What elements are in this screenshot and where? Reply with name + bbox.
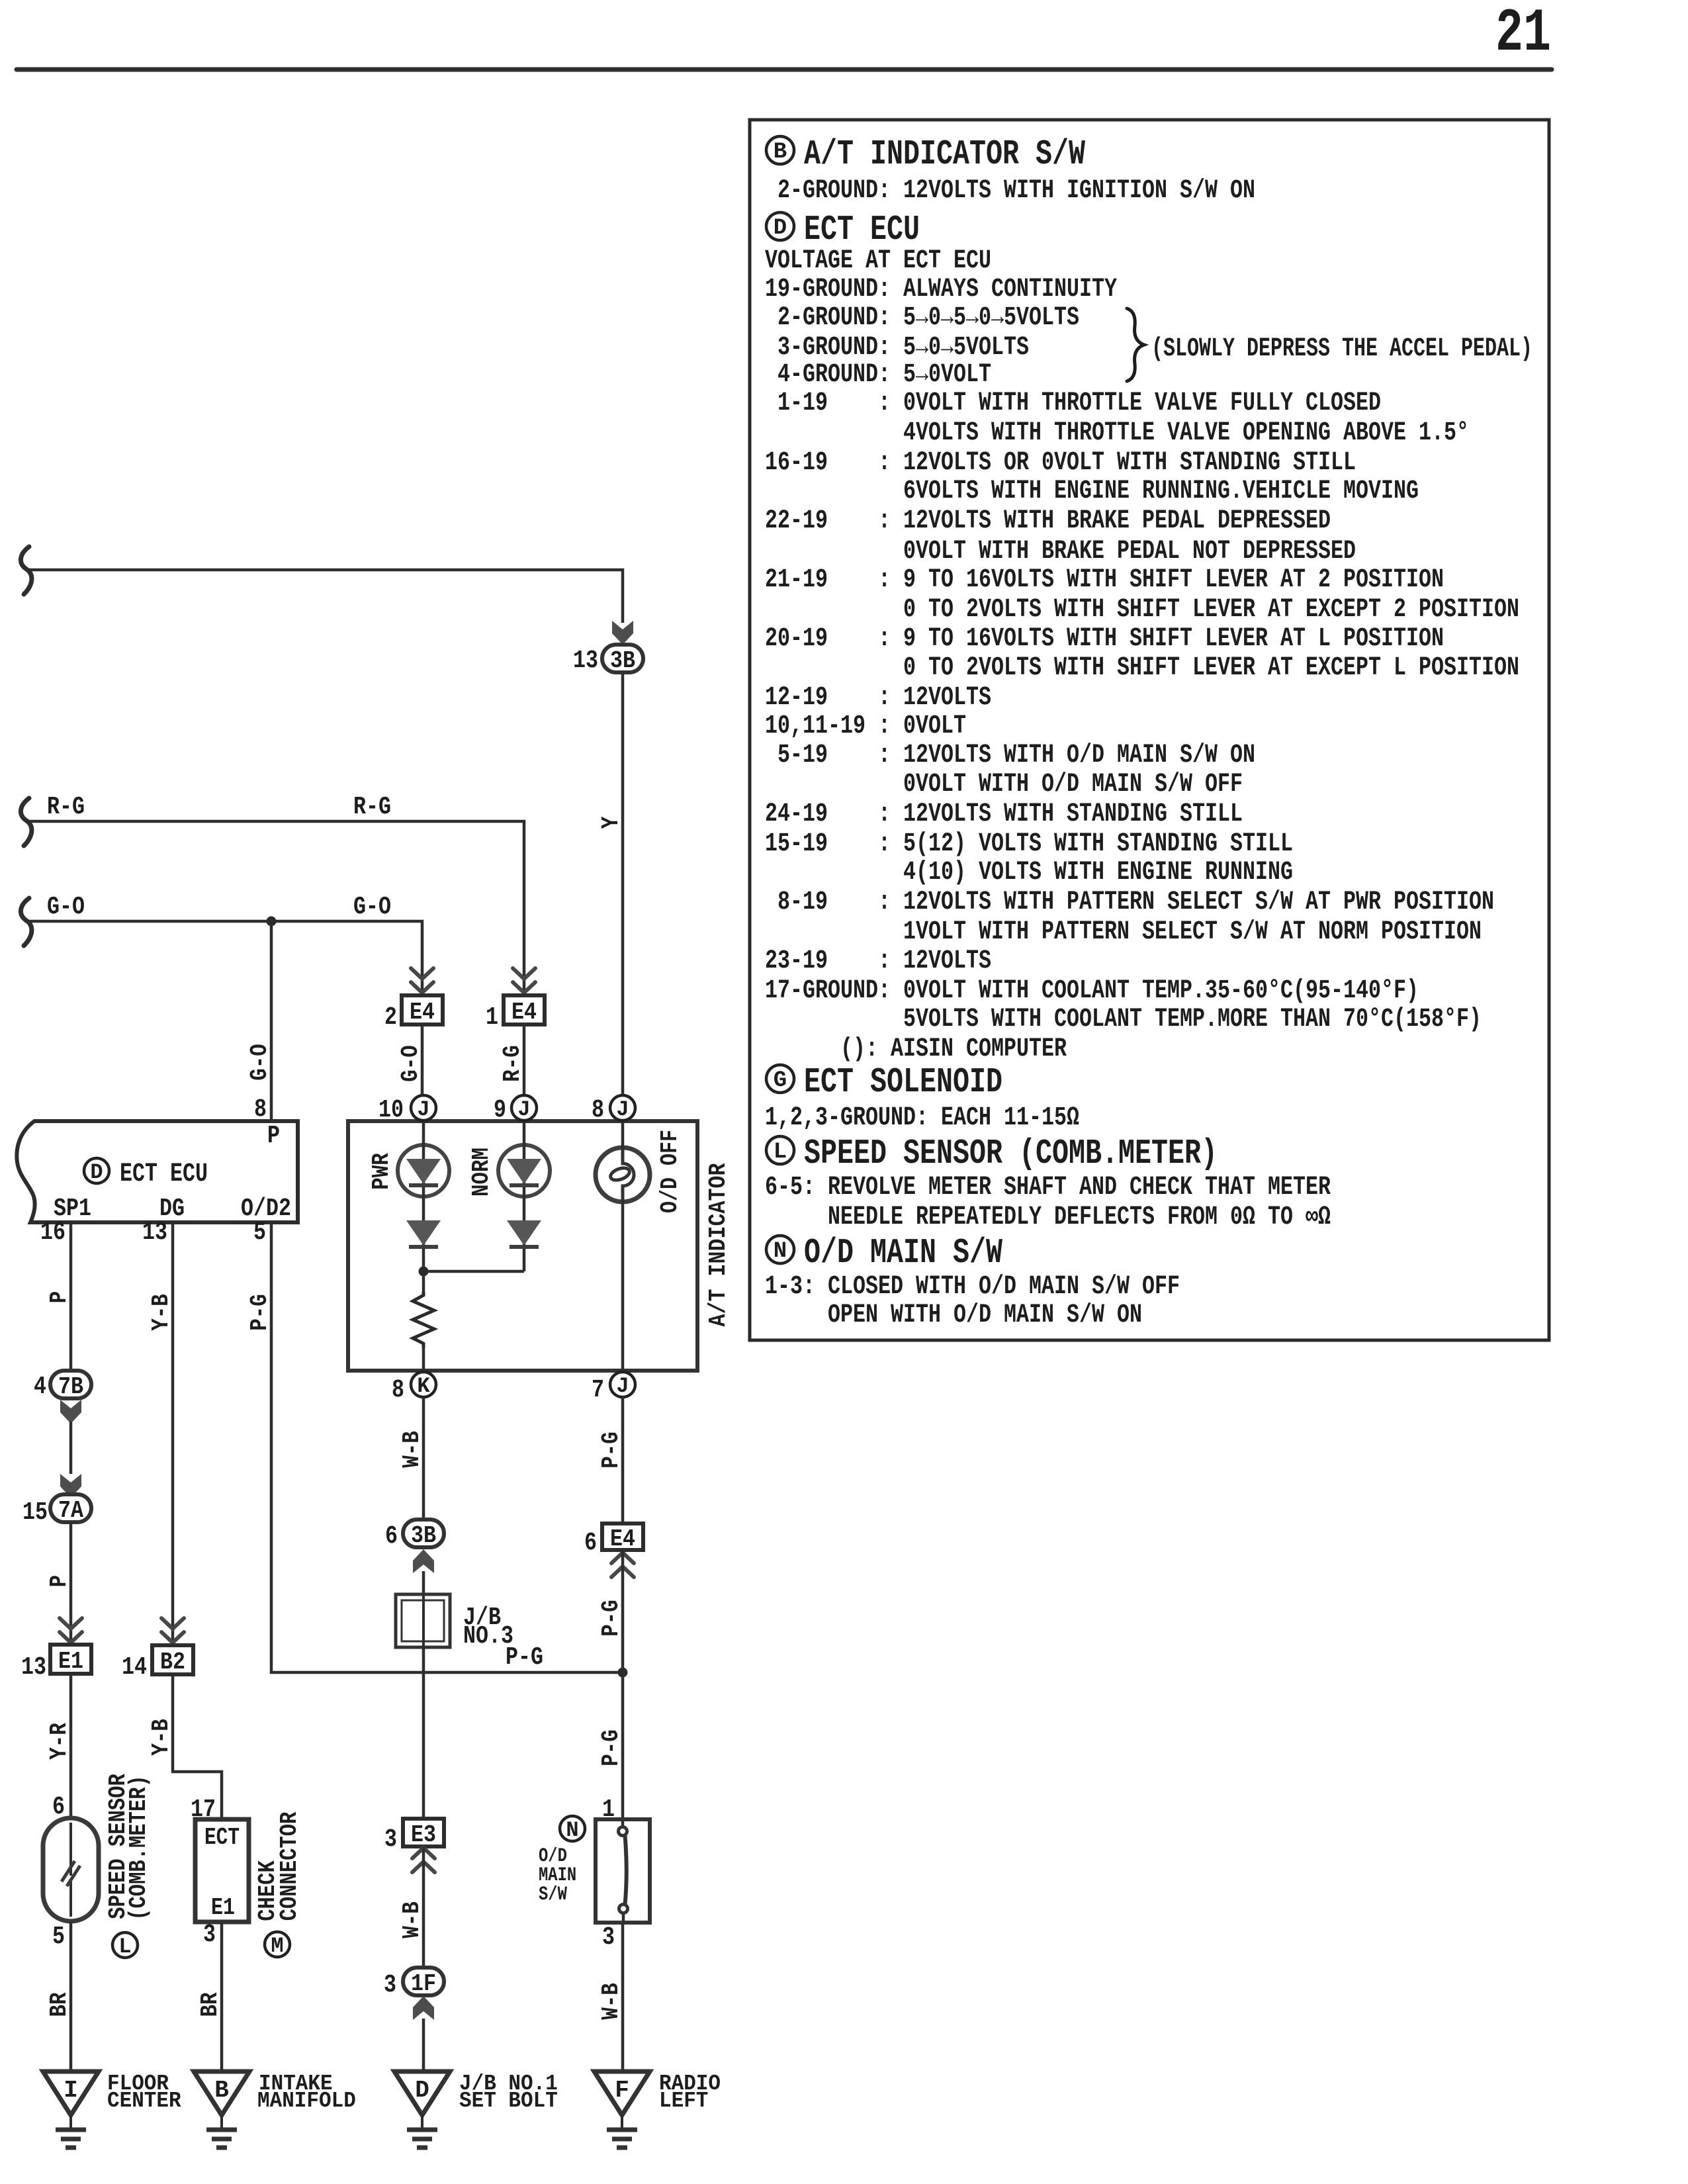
svg-text:D: D (774, 216, 787, 241)
circled letter D (ECT ECU) (84, 1158, 109, 1185)
svg-text:1-3: CLOSED WITH O/D MAIN S/W: 1-3: CLOSED WITH O/D MAIN S/W OFF (765, 1272, 1180, 1302)
svg-text:3: 3 (384, 1971, 396, 1999)
svg-text:G-O: G-O (246, 1044, 273, 1081)
wire W-B from 8(K) (422, 1397, 425, 1520)
svg-text:8-19 : 12VOLTS WITH PATTERN: 8-19 : 12VOLTS WITH PATTERN SELECT S/W A… (765, 887, 1494, 917)
wire to ground D (422, 2019, 425, 2071)
connector arrow into 2(E4) (411, 968, 433, 993)
wire lamp branch upper (621, 1121, 625, 1149)
wire P-G from ECT ECU O/D2 pin 5 (271, 1222, 623, 1672)
wire P from 7A to 13(E1) (69, 1522, 73, 1645)
svg-text:Y: Y (598, 816, 625, 829)
connector 13(3B) (602, 645, 643, 674)
wire BR to ground B (220, 1922, 224, 2071)
svg-text:OPEN WITH O/D MAIN S/W ON: OPEN WITH O/D MAIN S/W ON (765, 1300, 1142, 1330)
connector circle 10(J) (411, 1095, 436, 1122)
wire squiggle (continuation mark) G-O (21, 898, 31, 946)
svg-text:W-B: W-B (398, 1901, 425, 1938)
connector 2(E4) (402, 995, 443, 1026)
svg-text:19-GROUND: ALWAYS CONTINUITY: 19-GROUND: ALWAYS CONTINUITY (765, 275, 1117, 304)
solid arrow out of 3(1F) (413, 1996, 434, 2020)
connector arrow out of 3(E3) (412, 1848, 435, 1872)
wire junction to NORM branch (423, 1270, 524, 1273)
wire G-O (28, 921, 422, 995)
top rule (17, 68, 1552, 72)
wire G-O to 10(J) (421, 1024, 424, 1096)
svg-text:G-O: G-O (47, 893, 85, 921)
svg-text:Y-B: Y-B (148, 1294, 175, 1331)
svg-text:0 TO 2VOLTS WITH SHIFT LEVER A: 0 TO 2VOLTS WITH SHIFT LEVER AT EXCEPT L… (765, 653, 1519, 683)
connector circle 7(J) (610, 1372, 635, 1398)
svg-text:J: J (417, 1097, 429, 1122)
svg-text:LEFT: LEFT (659, 2089, 708, 2113)
svg-text:(): AISIN COMPUTER: (): AISIN COMPUTER (765, 1034, 1067, 1064)
svg-text:B: B (774, 140, 787, 165)
svg-text:5VOLTS WITH COOLANT TEMP.MORE: 5VOLTS WITH COOLANT TEMP.MORE THAN 70°C(… (765, 1005, 1482, 1034)
svg-text:5: 5 (52, 1923, 65, 1951)
circled letter N (O/D main S/W) (560, 1816, 585, 1843)
svg-text:BR: BR (197, 1992, 224, 2017)
A/T indicator box (348, 1121, 697, 1371)
solid arrow into connector 3B (612, 621, 633, 645)
svg-text:4-GROUND: 5→0VOLT: 4-GROUND: 5→0VOLT (765, 360, 991, 390)
svg-text:J: J (616, 1374, 629, 1398)
LED PWR diode (406, 1159, 441, 1185)
svg-text:13: 13 (21, 1653, 46, 1682)
connector 3(1F) (403, 1968, 444, 1997)
solid arrow into 7A (60, 1474, 81, 1498)
svg-text:7B: 7B (58, 1373, 83, 1400)
svg-text:0VOLT WITH O/D MAIN S/W OFF: 0VOLT WITH O/D MAIN S/W OFF (765, 770, 1243, 799)
connector 6(3B) (403, 1520, 444, 1549)
svg-text:G: G (774, 1068, 787, 1093)
wire to J/B No.3 (422, 1571, 425, 1594)
svg-text:6: 6 (385, 1522, 398, 1551)
svg-text:5-19 : 12VOLTS WITH O/D MAI: 5-19 : 12VOLTS WITH O/D MAIN S/W ON (765, 741, 1255, 770)
info box border (750, 120, 1549, 1340)
svg-text:15: 15 (22, 1498, 48, 1527)
svg-text:5: 5 (253, 1218, 266, 1247)
svg-text:A/T INDICATOR: A/T INDICATOR (705, 1163, 732, 1326)
svg-text:3-GROUND: 5→0→5VOLTS: 3-GROUND: 5→0→5VOLTS (765, 333, 1029, 363)
circled letter M (check connector) (265, 1932, 290, 1958)
svg-text:PWR: PWR (368, 1153, 395, 1190)
svg-text:6: 6 (584, 1529, 597, 1557)
svg-text:R-G: R-G (47, 793, 85, 821)
wire NORM branch (523, 1121, 526, 1271)
wire P-G to O/D main switch (621, 1550, 625, 1819)
connector 14(B2) (152, 1645, 193, 1676)
svg-text:(COMB.METER): (COMB.METER) (125, 1775, 152, 1921)
svg-text:6VOLTS WITH ENGINE RUNNING.VEH: 6VOLTS WITH ENGINE RUNNING.VEHICLE MOVIN… (765, 477, 1419, 506)
wire W-B to ground F (621, 1923, 625, 2071)
svg-text:SPEED SENSOR (COMB.METER): SPEED SENSOR (COMB.METER) (804, 1134, 1218, 1173)
svg-text:R-G: R-G (353, 793, 391, 821)
connector 3(E3) (403, 1819, 444, 1848)
wire G-O branch to ECT ECU pin 8 (270, 921, 273, 1121)
svg-text:6-5: REVOLVE METER SHAFT AND C: 6-5: REVOLVE METER SHAFT AND CHECK THAT … (765, 1173, 1331, 1203)
lamp filament O/D OFF (609, 1149, 634, 1201)
wire Y-B jog to check connector (173, 1674, 222, 1819)
svg-text:L: L (774, 1140, 787, 1165)
connector 15(7A) (50, 1494, 91, 1524)
svg-text:23-19 : 12VOLTS: 23-19 : 12VOLTS (765, 946, 991, 976)
connector 6(E4) (602, 1524, 643, 1553)
svg-text:15-19 : 5(12) VOLTS WITH ST: 15-19 : 5(12) VOLTS WITH STANDING STILL (765, 829, 1293, 859)
svg-text:P-G: P-G (506, 1643, 543, 1672)
svg-text:21: 21 (1495, 0, 1551, 68)
ground symbol I floor center (43, 2071, 99, 2148)
svg-text:CONNECTOR: CONNECTOR (276, 1811, 303, 1921)
svg-text:L: L (118, 1934, 131, 1959)
svg-text:W-B: W-B (598, 1983, 625, 2020)
svg-text:E1: E1 (58, 1648, 83, 1675)
circled letter L (766, 1136, 794, 1165)
lamp circle O/D OFF (596, 1148, 650, 1202)
svg-text:D: D (90, 1160, 103, 1185)
svg-text:E4: E4 (511, 999, 537, 1026)
circled letter G (766, 1065, 794, 1093)
svg-text:4(10) VOLTS WITH ENGINE RUNNIN: 4(10) VOLTS WITH ENGINE RUNNING (765, 858, 1293, 887)
svg-text:K: K (417, 1374, 430, 1398)
svg-text:8: 8 (392, 1376, 404, 1404)
svg-text:22-19 : 12VOLTS WITH BRAKE: 22-19 : 12VOLTS WITH BRAKE PEDAL DEPRESS… (765, 506, 1331, 536)
svg-text:P-G: P-G (598, 1729, 625, 1766)
svg-text:8: 8 (592, 1096, 604, 1124)
svg-text:O/D OFF: O/D OFF (656, 1130, 684, 1213)
svg-text:2-GROUND: 5→0→5→0→5VOLTS: 2-GROUND: 5→0→5→0→5VOLTS (765, 303, 1079, 333)
svg-text:O/D MAIN S/W: O/D MAIN S/W (804, 1233, 1002, 1273)
svg-text:Y-B: Y-B (148, 1719, 175, 1756)
diode below NORM LED (507, 1220, 541, 1247)
svg-text:P-G: P-G (598, 1600, 625, 1637)
svg-text:14: 14 (122, 1653, 147, 1682)
svg-text:ECT SOLENOID: ECT SOLENOID (804, 1062, 1002, 1102)
wire lamp branch lower (621, 1201, 625, 1373)
svg-text:N: N (566, 1818, 578, 1843)
speed sensor symbol (capsule) (43, 1818, 99, 1921)
svg-text:SET BOLT: SET BOLT (459, 2089, 558, 2113)
wire W-B to 3(1F) (422, 1846, 425, 1967)
connector arrow into 1(E4) (513, 968, 535, 993)
wire BR to ground I (69, 1921, 73, 2071)
svg-text:I: I (64, 2077, 78, 2104)
wire P from ECT ECU pin 16 (69, 1222, 73, 1371)
ground symbol D J/B No.1 set bolt (394, 2071, 450, 2148)
LED circle PWR (398, 1145, 449, 1197)
svg-text:0VOLT WITH BRAKE PEDAL NOT DEP: 0VOLT WITH BRAKE PEDAL NOT DEPRESSED (765, 537, 1356, 567)
diode below PWR LED (406, 1220, 441, 1247)
junction dot below PWR diode (419, 1267, 429, 1277)
svg-text:Y-R: Y-R (46, 1723, 73, 1760)
svg-text:24-19 : 12VOLTS WITH STANDI: 24-19 : 12VOLTS WITH STANDING STILL (765, 799, 1243, 829)
svg-text:20-19 : 9 TO 16VOLTS WITH S: 20-19 : 9 TO 16VOLTS WITH SHIFT LEVER AT… (765, 624, 1444, 654)
svg-text:21-19 : 9 TO 16VOLTS WITH S: 21-19 : 9 TO 16VOLTS WITH SHIFT LEVER AT… (765, 565, 1444, 595)
svg-text:3: 3 (384, 1825, 397, 1854)
svg-text:G-O: G-O (397, 1045, 424, 1082)
connector 1(E4) (504, 995, 545, 1026)
svg-text:R-G: R-G (499, 1045, 526, 1082)
wire Y-B from ECT ECU pin 13 (171, 1222, 175, 1645)
svg-text:4VOLTS WITH THROTTLE VALVE OPE: 4VOLTS WITH THROTTLE VALVE OPENING ABOVE… (765, 418, 1469, 448)
svg-text:1,2,3-GROUND: EACH 11-15Ω: 1,2,3-GROUND: EACH 11-15Ω (765, 1103, 1079, 1133)
svg-text:E1: E1 (211, 1894, 235, 1921)
J/B No.3 box (396, 1594, 450, 1647)
ground symbol B intake manifold (194, 2071, 249, 2148)
svg-text:0 TO 2VOLTS WITH SHIFT LEVER A: 0 TO 2VOLTS WITH SHIFT LEVER AT EXCEPT 2… (765, 595, 1519, 625)
svg-text:1VOLT WITH PATTERN SELECT S/W: 1VOLT WITH PATTERN SELECT S/W AT NORM PO… (765, 917, 1482, 947)
connector arrow into 13(E1) (60, 1618, 82, 1643)
svg-text:ECT ECU: ECT ECU (804, 210, 920, 250)
check connector ECT box (195, 1819, 249, 1922)
circled letter D (766, 212, 794, 241)
svg-text:3: 3 (203, 1921, 216, 1949)
svg-text:1-19 : 0VOLT WITH THROTTLE: 1-19 : 0VOLT WITH THROTTLE VALVE FULLY C… (765, 388, 1381, 418)
svg-text:13: 13 (573, 647, 598, 675)
svg-text:A/T INDICATOR S/W: A/T INDICATOR S/W (804, 134, 1085, 174)
svg-text:10,11-19 : 0VOLT: 10,11-19 : 0VOLT (765, 711, 966, 741)
circled letter N (766, 1236, 794, 1264)
svg-text:17-GROUND: 0VOLT WITH COOLANT: 17-GROUND: 0VOLT WITH COOLANT TEMP.35-60… (765, 976, 1419, 1006)
svg-text:F: F (615, 2077, 629, 2104)
svg-text:MANIFOLD: MANIFOLD (257, 2089, 356, 2113)
svg-text:M: M (271, 1934, 283, 1958)
svg-text:J: J (517, 1097, 530, 1122)
junction dot G-O branch (267, 917, 277, 927)
svg-text:12-19 : 12VOLTS: 12-19 : 12VOLTS (765, 683, 991, 713)
svg-text:7: 7 (592, 1376, 604, 1404)
svg-text:10: 10 (378, 1096, 404, 1124)
svg-text:NORM: NORM (468, 1148, 495, 1197)
LED NORM diode (507, 1159, 541, 1185)
svg-text:NEEDLE REPEATEDLY DEFLECTS FRO: NEEDLE REPEATEDLY DEFLECTS FROM 0Ω TO ∞Ω (765, 1203, 1331, 1232)
svg-text:2: 2 (384, 1003, 397, 1032)
svg-text:2-GROUND: 12VOLTS WITH IGNITIO: 2-GROUND: 12VOLTS WITH IGNITION S/W ON (765, 176, 1255, 206)
svg-text:1: 1 (486, 1003, 498, 1032)
svg-text:VOLTAGE AT ECT ECU: VOLTAGE AT ECT ECU (765, 246, 991, 276)
svg-text:P: P (46, 1291, 73, 1304)
solid arrow below 7B (60, 1400, 81, 1424)
svg-text:J: J (616, 1097, 629, 1122)
svg-text:BR: BR (46, 1992, 73, 2017)
resistor (A/T indicator) (413, 1292, 434, 1347)
svg-text:ECT: ECT (204, 1824, 240, 1851)
svg-text:7A: 7A (58, 1497, 83, 1524)
svg-text:3B: 3B (411, 1522, 436, 1549)
svg-text:1F: 1F (411, 1970, 436, 1997)
svg-text:E3: E3 (411, 1821, 436, 1848)
connector 4(7B) (50, 1371, 91, 1400)
brace for 2/3/4-GROUND group (1127, 308, 1144, 381)
wire squiggle (continuation mark) top feed (21, 547, 31, 594)
circled letter L (speed sensor) (112, 1933, 138, 1959)
svg-text:D: D (415, 2077, 429, 2104)
svg-text:16-19 : 12VOLTS OR 0VOLT WI: 16-19 : 12VOLTS OR 0VOLT WITH STANDING S… (765, 448, 1356, 478)
svg-text:4: 4 (34, 1373, 46, 1401)
ECT ECU box (torn left edge) (17, 1121, 298, 1222)
wire R-G (28, 821, 524, 995)
svg-text:P-G: P-G (598, 1432, 625, 1469)
wire squiggle (continuation mark) R-G (21, 798, 31, 846)
svg-text:3B: 3B (610, 647, 635, 674)
svg-text:3: 3 (602, 1923, 615, 1952)
circled letter B (766, 136, 794, 165)
connector arrow into 14(B2) (161, 1618, 184, 1643)
LED circle NORM (498, 1145, 550, 1197)
svg-text:9: 9 (494, 1096, 506, 1124)
svg-text:E4: E4 (610, 1525, 635, 1553)
wire W-B from J/B No.3 to 3(E3) (422, 1647, 425, 1819)
svg-text:P-G: P-G (246, 1294, 273, 1331)
svg-text:B2: B2 (160, 1649, 185, 1676)
svg-text:O/D2: O/D2 (241, 1195, 291, 1223)
O/D main switch box (596, 1819, 650, 1923)
svg-text:W-B: W-B (398, 1431, 425, 1468)
wire Y from 3B to 8(J) (621, 672, 625, 1096)
ground symbol F radio left (594, 2071, 650, 2148)
connector arrow out of 6(E4) (611, 1553, 634, 1577)
connector 13(E1) (50, 1645, 91, 1675)
wire P-G from 7(J) (621, 1397, 625, 1524)
svg-text:B: B (214, 2077, 229, 2104)
svg-text:ECT ECU: ECT ECU (120, 1160, 208, 1189)
wire R-G to 9(J) (523, 1024, 526, 1096)
wire PWR branch lower (422, 1347, 425, 1373)
connector circle 8(K) (411, 1372, 436, 1398)
connector circle 9(J) (511, 1095, 537, 1122)
svg-text:13: 13 (142, 1218, 167, 1247)
svg-text:P: P (267, 1122, 280, 1150)
svg-text:G-O: G-O (353, 893, 391, 921)
svg-text:P: P (46, 1575, 73, 1588)
svg-text:E4: E4 (410, 999, 435, 1026)
wire between 7B and 7A (69, 1422, 73, 1474)
junction dot P-G (618, 1668, 628, 1678)
svg-text:CENTER: CENTER (107, 2089, 181, 2113)
svg-text:(SLOWLY DEPRESS THE ACCEL PEDA: (SLOWLY DEPRESS THE ACCEL PEDAL) (1151, 334, 1533, 364)
connector circle 8(J) (610, 1095, 635, 1122)
wire PWR branch upper (422, 1121, 425, 1292)
solid arrow out of 6(3B) (413, 1549, 434, 1573)
svg-text:16: 16 (40, 1218, 66, 1247)
wire top feed to node 13(3B) (28, 570, 623, 623)
svg-text:S/W: S/W (539, 1884, 567, 1906)
svg-text:N: N (774, 1239, 787, 1264)
wire Y-R to speed sensor (69, 1674, 73, 1819)
